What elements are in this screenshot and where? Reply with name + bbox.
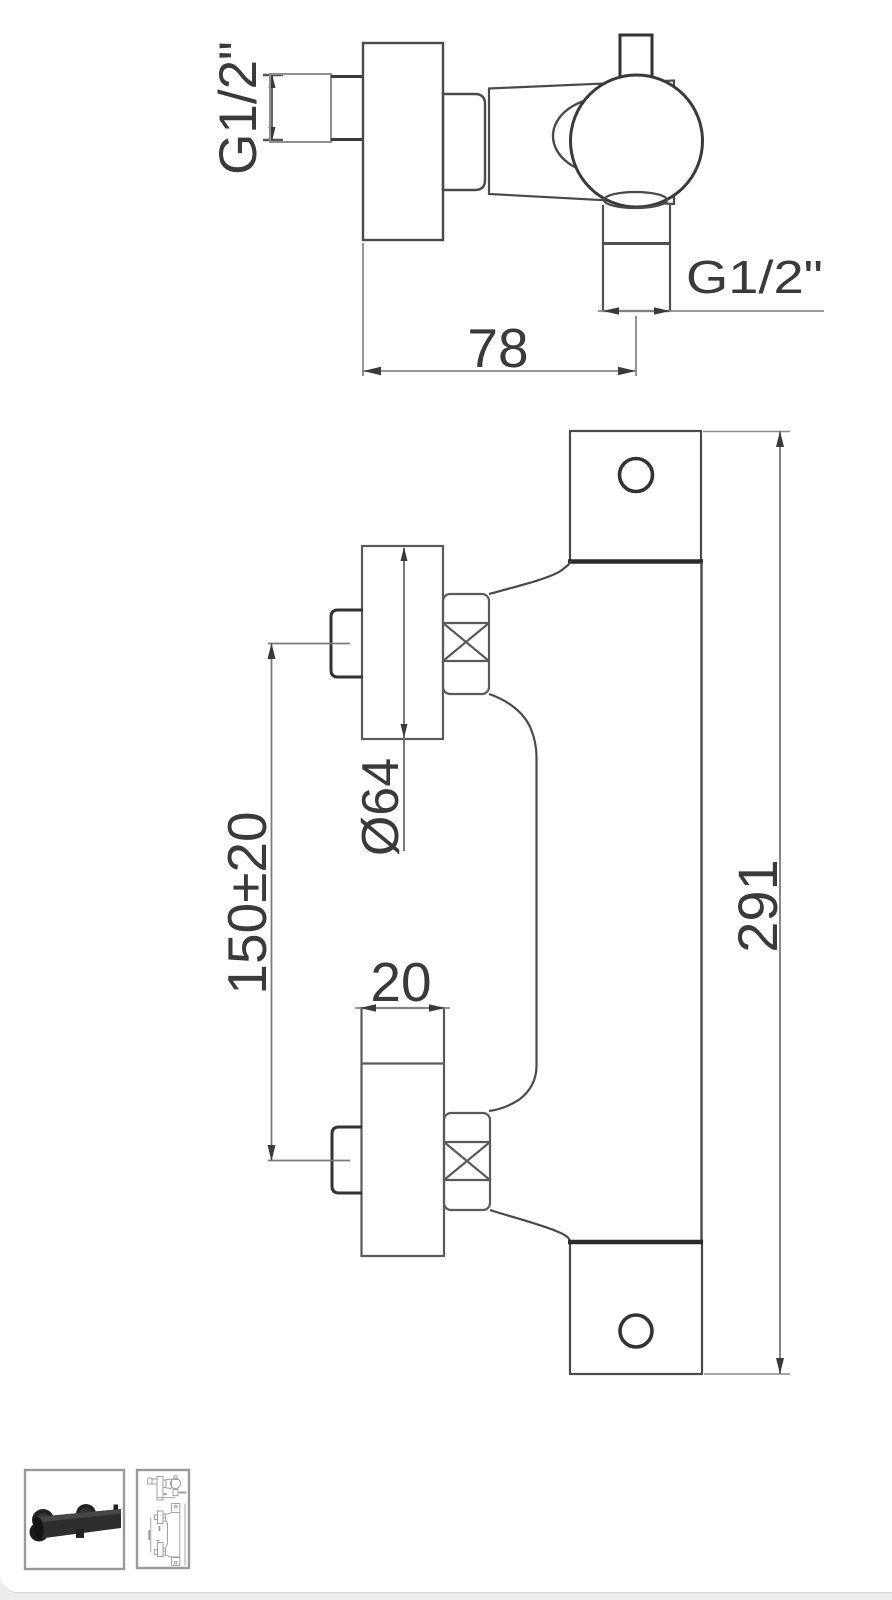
thumbnail: mini technical drawing: [148, 1476, 187, 1566]
svg-text:Ø64: Ø64: [352, 758, 410, 856]
side view: inlet height dimension: [263, 74, 283, 141]
front view: bottom wall bracket: [568, 1242, 703, 1374]
front view: top wall bracket: [568, 431, 703, 562]
front view: lower knob: [332, 1127, 362, 1193]
thumbnail: mini drawing frame: [137, 1470, 189, 1568]
side view: outlet width dimension: [598, 307, 824, 315]
side view: valve body: [363, 43, 443, 240]
thumbnail: product photo frame: [25, 1470, 124, 1569]
side view: control knob circle: [571, 75, 703, 207]
front view: lower swivel connector: [444, 1113, 490, 1210]
thumbnail: product photo faucet: [30, 1504, 122, 1542]
svg-text:G1/2": G1/2": [209, 41, 268, 175]
side view: inlet connector: [270, 74, 364, 142]
front view: upper swivel connector: [443, 594, 489, 694]
front view: top bracket hole: [620, 459, 653, 492]
side view: outlet rim ellipse: [604, 192, 667, 208]
side view: inlet thread label G1/2": [209, 41, 268, 175]
front view: upper cartridge: [362, 546, 443, 739]
side view: outlet connector: [603, 205, 670, 311]
front view: bottom bracket hole: [620, 1315, 652, 1347]
side view: handle inner ellipse: [553, 97, 663, 175]
front view: lower cartridge: [362, 1008, 445, 1256]
front view: body left outline middle: [489, 694, 537, 1111]
side view: neck: [443, 94, 485, 190]
front view: dimension D64: [352, 547, 410, 856]
front view: dimension 150+-20: [216, 643, 350, 1161]
svg-text:G1/2": G1/2": [686, 251, 823, 303]
side view: dimension 78: [363, 243, 636, 379]
front view: dimension 20: [355, 951, 450, 1013]
side view: handle stem: [620, 35, 652, 83]
front view: body left outline upper: [489, 561, 570, 594]
front view: body right edge: [700, 562, 702, 1241]
front view: upper knob: [331, 610, 363, 677]
svg-text:291: 291: [726, 859, 789, 952]
side view: cone body: [489, 81, 674, 205]
front view: dimension 291: [703, 431, 790, 1374]
front view: body left outline lower: [490, 1210, 570, 1242]
svg-text:78: 78: [467, 317, 528, 379]
svg-text:20: 20: [370, 951, 431, 1013]
svg-text:150±20: 150±20: [216, 811, 278, 994]
